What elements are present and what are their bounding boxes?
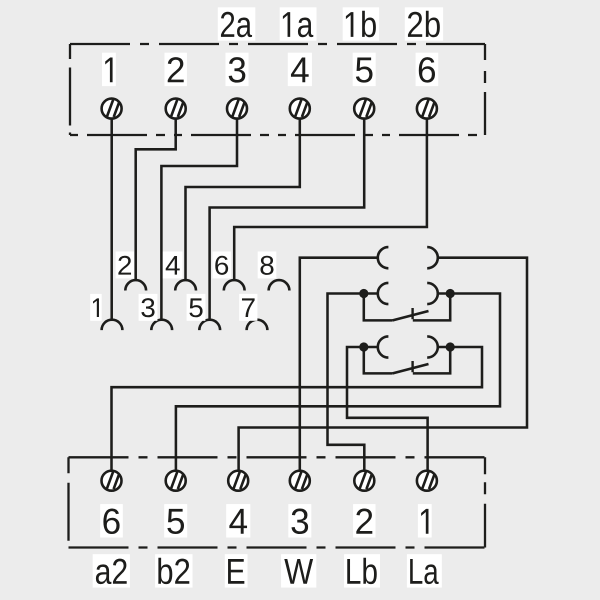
top terminal number 6 [416, 53, 439, 86]
bottom terminal number 1 [418, 504, 432, 537]
wire: plug row2 right to bottom terminal 5 (b2) [176, 294, 500, 471]
wire: bottom terminal 2 (Lb) to plug row2 left [328, 294, 380, 471]
bottom terminal number 2 [353, 504, 375, 537]
label W [281, 554, 316, 587]
bottom terminal 3 [290, 471, 310, 491]
top terminal 6 [417, 99, 437, 119]
bottom terminal number 6 [100, 504, 123, 537]
wire: bottom terminal 1 (La) to plug row3 left [347, 347, 428, 471]
bottom terminal 2 [354, 471, 374, 491]
top terminal number 4 [288, 53, 312, 86]
plug-socket pair row2 left arc [378, 283, 389, 304]
socket contact number 6 [213, 252, 231, 279]
bottom terminal 1 [417, 471, 437, 491]
bottom terminal number 5 [164, 504, 187, 537]
label a2 [93, 554, 130, 587]
socket contact number 4 [163, 252, 183, 279]
label 1b [343, 7, 379, 40]
socket contact 6 [224, 280, 245, 290]
top terminal 4 [290, 99, 310, 119]
wire: bottom terminal 3 (W) to plug row1 left [300, 258, 379, 471]
bottom terminal 4 [228, 471, 248, 491]
wire: top terminal 3 to socket contact 3 [161, 119, 237, 321]
bottom terminal 5 [166, 471, 186, 491]
top terminal number 5 [353, 53, 376, 86]
junction dot row2 left [359, 289, 368, 298]
top terminal 1 [102, 99, 122, 119]
label 1a [280, 7, 317, 40]
switch S3 blade [393, 364, 429, 373]
switch S3 break contact right lead [413, 347, 450, 373]
top terminal 5 [354, 99, 374, 119]
socket contact number 8 [258, 252, 277, 279]
switch S3 stop tick [411, 361, 413, 372]
label 2a [218, 7, 256, 40]
wire: top terminal 4 to socket contact 4 [186, 119, 300, 281]
junction dot row3 left [359, 342, 368, 351]
top terminal number 1 [102, 53, 116, 86]
socket contact number 5 [187, 294, 206, 321]
plug-socket pair row3 right arc [427, 336, 438, 357]
label La [407, 554, 442, 587]
top terminal 3 [227, 99, 247, 119]
junction dot row2 right [446, 289, 455, 298]
junction dot row3 right [446, 342, 455, 351]
socket contact 8 [269, 280, 290, 290]
top terminal block X1 dashed outline [70, 44, 485, 135]
socket contact 3 [151, 320, 172, 330]
switch S2 blade [393, 311, 429, 320]
top terminal number 3 [226, 53, 249, 86]
socket contact 5 [199, 320, 220, 330]
socket contact 2 [125, 280, 146, 290]
plug-socket pair row2 right arc [427, 283, 438, 304]
label 2b [405, 7, 443, 40]
plug-socket pair row1 right arc [427, 247, 438, 268]
label Lb [344, 554, 380, 587]
bottom terminal number 4 [226, 504, 250, 537]
wire: top terminal 6 to socket contact 6 [234, 119, 427, 281]
socket contact 1 [102, 320, 123, 330]
wire: top terminal 5 to socket contact 5 [210, 119, 365, 321]
wire: top terminal 1 to socket contact 1 [110, 119, 113, 321]
label b2 [155, 554, 192, 587]
socket contact 4 [175, 280, 196, 290]
wire: plug row3 right to bottom terminal 6 (a2) [112, 347, 483, 471]
socket contact number 1 [90, 294, 102, 321]
bottom terminal block X2 dashed outline [69, 457, 486, 547]
wire: plug row1 right to bottom terminal 4 (E) [239, 258, 527, 471]
bottom terminal 6 [102, 471, 122, 491]
plug-socket pair row1 left arc [378, 247, 389, 268]
wire: top terminal 2 to socket contact 2 [136, 119, 176, 281]
plug-socket pair row3 left arc [378, 336, 389, 357]
top terminal number 2 [165, 53, 187, 86]
socket contact number 2 [116, 252, 134, 279]
socket contact 7 [247, 320, 268, 330]
switch S2 break contact right lead [413, 294, 450, 321]
switch S3 break contact left lead [364, 347, 393, 373]
socket contact number 7 [239, 294, 257, 321]
bottom terminal number 3 [288, 504, 311, 537]
label E [225, 554, 248, 587]
top terminal 2 [166, 99, 186, 119]
switch S2 stop tick [411, 308, 413, 319]
socket contact number 3 [139, 294, 158, 321]
switch S2 break contact left lead [364, 294, 393, 321]
